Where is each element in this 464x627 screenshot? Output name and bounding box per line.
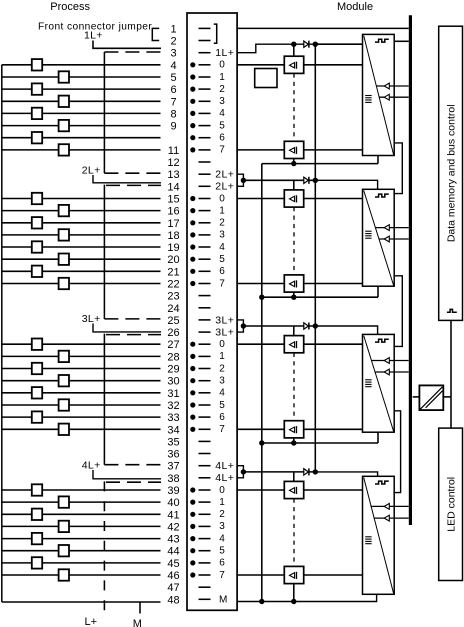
process line group 3 channel 6 terminal 33 [2,416,161,418]
svg-text:LED control: LED control [445,477,457,532]
junction optocoupler U2 common [291,161,296,166]
svg-text:5: 5 [219,546,225,557]
terminal 12 contact [199,161,211,163]
jumper bracket terminals 13-14 [237,174,243,186]
terminal 40 contact [199,501,211,503]
sensor contact group 4 channel 3 [59,521,69,532]
svg-text:32: 32 [167,400,179,412]
sensor contact group 2 channel 5 [59,254,69,265]
svg-text:M: M [219,595,227,606]
junction group 1 L+ to optocoupler U1 [291,42,296,47]
isolation diagonal block A1 [364,36,394,155]
wire terminal 48 M to block A4 [237,594,377,601]
terminal 37 contact [199,465,211,467]
sensor contact group 4 channel 0 [32,484,42,495]
process line group 4 channel 1 terminal 40 [2,501,161,503]
wire L+ to optocoupler U1 top [293,44,295,56]
serial chain wire block A3 to block A4 [393,411,400,493]
sensor contact group 1 channel 6 [32,132,42,143]
svg-text:4L+: 4L+ [82,460,101,472]
svg-text:1: 1 [219,205,225,216]
terminal 44 contact [199,550,211,552]
svg-text:2L+: 2L+ [82,165,101,177]
isolation diagonal block A2 [364,191,394,286]
svg-text:5: 5 [219,254,225,265]
isolation diagonal block A4 [364,478,394,594]
terminal 11 wire-break dot [190,147,195,152]
dashed wire L+ bus to terminal 26 [106,334,161,336]
process line group 1 channel 1 terminal 5 [2,76,161,78]
junction common rail group 3 [259,440,264,445]
process line group 1 channel 0 terminal 4 [2,64,161,66]
serial chain wire block A1 to block A2 [393,143,402,194]
svg-text:4: 4 [219,242,225,253]
optocoupler U3 channel 0 group 2 [284,190,303,207]
wire optocoupler U5 to block A3 [304,343,363,345]
svg-text:37: 37 [167,461,179,473]
terminal 7 wire-break dot [190,99,195,104]
process line group 4 channel 3 terminal 42 [2,525,161,527]
dashed wire L+ bus to terminal 38 [106,481,161,483]
svg-text:48: 48 [167,594,179,606]
optocoupler U7 channel 0 group 4 [284,481,303,498]
svg-text:2: 2 [170,36,176,48]
terminal 20 contact [199,258,211,260]
terminal 26 contact [199,331,211,333]
terminal 38 contact [199,477,211,479]
terminal 16 wire-break dot [190,208,195,213]
terminal 47 contact [199,586,211,588]
process line group 1 channel 5 terminal 9 [2,125,161,127]
wire DC-DC converter to supply line [443,396,451,398]
wire optocoupler U8 common to M line [293,584,295,602]
process line group 4 channel 5 terminal 44 [2,550,161,552]
process line group 1 channel 2 terminal 6 [2,88,161,90]
terminal 45 wire-break dot [190,560,195,565]
internal common rail [261,164,263,602]
process line group 4 channel 4 terminal 43 [2,538,161,540]
clock pulse symbol data memory block [447,309,457,312]
svg-text:2L+: 2L+ [215,181,234,193]
svg-text:7: 7 [219,145,225,156]
sensor contact group 3 channel 1 [59,351,69,362]
optocoupler U5 channel 0 group 3 [284,336,303,353]
dashed line channels 1-6 group 1 [293,73,295,141]
svg-text:7: 7 [219,424,225,435]
junction common rail group 2 [259,295,264,300]
terminal 8 wire-break dot [190,111,195,116]
internal L+ rail (diode OR) [314,44,316,472]
wire optocoupler U3 to block A2 [304,198,363,200]
terminal 4 contact [199,64,211,66]
junction terminals 25-26 [241,323,246,328]
svg-text:2: 2 [219,84,225,95]
svg-text:30: 30 [167,376,179,388]
wire bus bar to DC-DC converter [413,396,420,398]
dashed wire L+ bus to terminal 37 [104,464,161,466]
terminal 33 wire-break dot [190,415,195,420]
svg-text:Module: Module [337,1,373,13]
wire optocoupler U8 to block A4 [304,574,363,576]
wire 1L+ terminal 3 to group 1 block [237,44,362,53]
svg-text:Data memory and bus control: Data memory and bus control [445,104,457,242]
wire 3L+ to diode V3 [243,325,315,327]
sensor contact group 2 channel 3 [59,229,69,240]
terminal 18 wire-break dot [190,232,195,237]
dashed line channels 1-6 group 3 [293,353,295,421]
DC-DC converter [419,385,443,410]
svg-text:22: 22 [167,279,179,291]
terminal 30 contact [199,380,211,382]
wire group 1 L+ rail to block A1 [315,43,362,45]
process line group 2 channel 2 terminal 17 [2,222,161,224]
svg-text:9: 9 [170,121,176,133]
sensor contact group 2 channel 1 [59,205,69,216]
terminal 3 contact [199,52,211,54]
svg-text:7: 7 [170,96,176,108]
terminal 34 wire-break dot [190,427,195,432]
terminal 41 wire-break dot [190,512,195,517]
junction diode V4 to internal L+ rail [313,469,318,474]
svg-text:L+: L+ [85,616,98,627]
process line group 2 channel 4 terminal 19 [2,246,161,248]
front connector terminal box [187,13,237,610]
svg-text:36: 36 [167,449,179,461]
terminal 35 contact [199,440,211,442]
svg-text:25: 25 [167,315,179,327]
svg-text:19: 19 [167,242,179,254]
wire optocoupler U6 common [293,438,295,443]
wire 2L+ supply to terminal 14 [93,175,161,183]
svg-text:23: 23 [167,291,179,303]
sensor contact group 1 channel 2 [32,83,42,94]
svg-text:7: 7 [219,570,225,581]
L+ vertical bus segment 2 [103,185,105,319]
svg-text:31: 31 [167,388,179,400]
svg-text:46: 46 [167,570,179,582]
svg-text:17: 17 [167,218,179,230]
wire terminal 15 to optocoupler U3 [237,198,284,200]
process line group 2 channel 0 terminal 15 [2,198,161,200]
svg-text:3: 3 [170,48,176,60]
terminal 43 contact [199,538,211,540]
sensor contact group 1 channel 3 [59,96,69,107]
svg-text:15: 15 [167,194,179,206]
sensor contact group 2 channel 7 [59,278,69,289]
terminal 44 wire-break dot [190,548,195,553]
terminal 19 wire-break dot [190,244,195,249]
sensor contact group 3 channel 2 [32,363,42,374]
svg-text:1: 1 [219,351,225,362]
process line group 2 channel 6 terminal 21 [2,270,161,272]
terminal 9 wire-break dot [190,123,195,128]
terminal 22 wire-break dot [190,281,195,286]
process line group 2 channel 3 terminal 18 [2,234,161,236]
svg-text:16: 16 [167,206,179,218]
process line group 1 channel 7 terminal 11 [2,149,161,151]
svg-text:0: 0 [219,339,225,350]
junction optocoupler U6 common [291,440,296,445]
svg-text:42: 42 [167,521,179,533]
serial chain wire block A2 to block A3 [393,276,402,347]
output 0 block A3 to data bus [371,360,409,362]
terminal 1 contact [199,27,211,29]
optocoupler U6 channel 7 group 3 [284,421,303,438]
svg-text:6: 6 [219,266,225,277]
output 1 block A3 to data bus [375,371,409,373]
L+ vertical bus segment 3 [103,334,105,465]
process line group 3 channel 7 terminal 34 [2,428,161,430]
terminal 28 wire-break dot [190,354,195,359]
svg-text:0: 0 [219,485,225,496]
svg-text:43: 43 [167,534,179,546]
L+ vertical bus segment 1 [103,52,105,173]
svg-text:1L+: 1L+ [84,30,103,42]
comparator block A1 group 1 [363,34,395,155]
optocoupler U8 channel 7 group 4 [284,566,303,583]
optocoupler U4 channel 7 group 2 [284,275,303,292]
svg-text:8: 8 [170,108,176,120]
junction diode V1 to internal L+ rail [313,42,318,47]
wire data memory block to LED control block [450,320,452,428]
wire terminal 34 to optocoupler U6 [237,428,284,430]
wire terminal 46 to optocoupler U8 [237,574,284,576]
common return wire group 2 [262,296,378,298]
sensor contact group 3 channel 6 [32,411,42,422]
svg-text:26: 26 [167,327,179,339]
common return wire group 3 [262,442,378,444]
terminal 29 wire-break dot [190,366,195,371]
svg-text:5: 5 [219,400,225,411]
svg-text:4: 4 [219,533,225,544]
svg-text:5: 5 [170,72,176,84]
terminal 28 contact [199,355,211,357]
svg-text:4: 4 [219,108,225,119]
svg-text:1: 1 [219,497,225,508]
dashed line channels 1-6 group 2 [293,207,295,275]
wire 1L+ supply to terminal 3 [93,41,161,49]
process line group 3 channel 3 terminal 30 [2,380,161,382]
process line group 1 channel 6 terminal 10 [2,137,161,139]
wire optocoupler U4 to block A2 [304,283,363,285]
process line group 2 channel 1 terminal 16 [2,210,161,212]
process line group 4 channel 0 terminal 39 [2,489,161,491]
svg-text:40: 40 [167,497,179,509]
wire terminal 22 to optocoupler U4 [237,283,284,285]
svg-text:M: M [133,618,142,627]
svg-text:21: 21 [167,266,179,278]
internal jumper bracket terminals 1-2 [214,24,217,43]
svg-text:0: 0 [219,193,225,204]
svg-text:41: 41 [167,509,179,521]
sensor contact group 1 channel 5 [59,120,69,131]
sensor contact group 1 channel 1 [59,71,69,82]
process line group 4 channel 6 terminal 45 [2,562,161,564]
terminal 42 contact [199,525,211,527]
terminal 31 contact [199,392,211,394]
terminal 6 wire-break dot [190,87,195,92]
common return wire group 1 to block A1 [377,156,379,164]
svg-text:33: 33 [167,412,179,424]
sensor contact group 2 channel 4 [32,241,42,252]
sensor contact group 4 channel 1 [59,496,69,507]
terminal 21 wire-break dot [190,269,195,274]
svg-text:4: 4 [219,388,225,399]
wire optocoupler U2 to block A1 [304,149,363,151]
process return bus left edge [1,65,3,602]
process line group 2 channel 5 terminal 20 [2,258,161,260]
terminal 39 wire-break dot [190,487,195,492]
wire bus bar to block A1 serial input [394,40,409,42]
terminal 14 contact [199,185,211,187]
process line group 3 channel 1 terminal 28 [2,355,161,357]
sensor contact group 2 channel 2 [32,217,42,228]
svg-text:11: 11 [168,145,179,157]
svg-text:Process: Process [50,1,90,13]
internal supply bus bar [409,15,412,525]
terminal 15 wire-break dot [190,196,195,201]
process line group 4 channel 2 terminal 41 [2,513,161,515]
comparator block A3 group 3 [363,334,395,432]
svg-text:3: 3 [219,96,225,107]
wire optocoupler U4 common [293,292,295,297]
wire 3L+ supply to terminal 26 [93,324,161,332]
terminal 42 wire-break dot [190,524,195,529]
terminal 46 wire-break dot [190,572,195,577]
junction optocoupler U8 common on M line [291,599,296,604]
svg-text:3L+: 3L+ [82,313,101,325]
svg-text:38: 38 [167,473,179,485]
hysteresis symbol block A1 [375,39,389,42]
junction diode V3 to internal L+ rail [313,323,318,328]
wire 2L+ to diode V2 [243,179,315,181]
terminal 17 contact [199,222,211,224]
wire L+ to optocoupler U7 top [293,472,295,482]
sensor contact group 3 channel 3 [59,375,69,386]
svg-text:4L+: 4L+ [215,460,234,472]
terminal 32 contact [199,404,211,406]
sensor contact group 4 channel 5 [59,545,69,556]
wire optocoupler U7 to block A4 [304,489,363,491]
process line group 1 channel 3 terminal 7 [2,100,161,102]
terminal 32 wire-break dot [190,402,195,407]
output 1 block A1 to data bus [379,96,409,98]
dashed line channels 1-6 group 4 [293,499,295,567]
sensor contact group 3 channel 5 [59,399,69,410]
terminal 22 contact [199,283,211,285]
svg-text:27: 27 [167,339,179,351]
sensor contact group 1 channel 7 [59,144,69,155]
svg-text:2: 2 [219,509,225,520]
input filter box [255,69,277,88]
svg-text:35: 35 [167,436,179,448]
output 0 block A4 to data bus [371,505,409,507]
junction optocoupler U4 common [291,295,296,300]
M stub [139,602,141,614]
dashed wire L+ bus to terminal 25 [104,318,161,320]
channel bundle marker block A2 [365,230,371,232]
terminal 36 contact [199,453,211,455]
junction common rail on M line [259,599,264,604]
wire 4L+ to diode V4 [243,471,315,473]
terminal 6 contact [199,88,211,90]
sensor contact group 3 channel 4 [32,387,42,398]
svg-text:4L+: 4L+ [215,472,234,484]
wire optocoupler U2 common [293,159,295,164]
diode V4 [304,469,309,475]
terminal 9 contact [199,125,211,127]
sensor contact group 2 channel 6 [32,266,42,277]
channel bundle marker block A3 [365,379,371,381]
terminal 48 contact [199,598,211,600]
process line group 2 channel 7 terminal 22 [2,283,161,285]
svg-text:3: 3 [219,230,225,241]
sensor contact group 1 channel 0 [32,59,42,70]
optocoupler U2 channel 7 group 1 [284,141,303,158]
terminal 31 wire-break dot [190,390,195,395]
terminal 30 wire-break dot [190,378,195,383]
terminal 5 contact [199,76,211,78]
process line group 3 channel 0 terminal 27 [2,343,161,345]
terminal 43 wire-break dot [190,536,195,541]
hysteresis symbol block A4 [375,481,389,484]
terminal 34 contact [199,428,211,430]
wire group 2 L+ to block A2 top [315,180,377,189]
junction terminals 13-14 [241,178,246,183]
diode V1 [304,41,309,47]
wire terminal 27 to optocoupler U5 [237,343,284,345]
svg-text:28: 28 [167,351,179,363]
svg-text:29: 29 [167,364,179,376]
comparator block A4 group 4 [363,476,395,594]
terminal 10 wire-break dot [190,135,195,140]
svg-text:24: 24 [167,303,179,315]
terminal 29 contact [199,368,211,370]
output direction symbol block A4 line 0 [384,504,389,510]
sensor contact group 4 channel 4 [32,533,42,544]
output 0 block A1 to data bus [376,85,409,87]
common return wire group 1 [262,163,378,165]
sensor contact group 4 channel 7 [59,569,69,580]
process line group 3 channel 4 terminal 31 [2,392,161,394]
dashed wire L+ bus to terminal 13 [104,172,161,174]
process line group 1 channel 4 terminal 8 [2,112,161,114]
sensor contact group 4 channel 6 [32,557,42,568]
svg-text:34: 34 [167,424,179,436]
jumper bracket terminals 37-38 [237,466,243,478]
svg-text:5: 5 [219,120,225,131]
wire terminal 11 to optocoupler U2 [237,149,284,151]
optocoupler U1 channel 0 group 1 [284,56,303,73]
svg-text:18: 18 [167,230,179,242]
terminal 7 contact [199,100,211,102]
LED control block [439,428,463,580]
wire optocoupler U1 to block A1 [304,64,363,66]
output direction symbol block A2 line 1 [384,236,389,242]
svg-text:1L+: 1L+ [215,47,234,59]
terminal 39 contact [199,489,211,491]
diode V3 [304,323,309,329]
svg-text:44: 44 [167,546,179,558]
terminal 15 contact [199,198,211,200]
terminal 46 contact [199,574,211,576]
terminal 16 contact [199,210,211,212]
hysteresis symbol block A2 [375,194,389,197]
svg-text:3L+: 3L+ [215,314,234,326]
isolation diagonal block A3 [364,336,394,432]
output 1 block A2 to data bus [379,238,409,240]
dashed wire L+ bus to terminal 14 [106,184,161,186]
